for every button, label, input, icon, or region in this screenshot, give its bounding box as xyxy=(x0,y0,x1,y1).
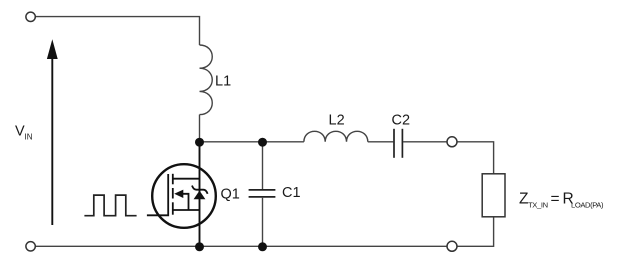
svg-text:Q1: Q1 xyxy=(221,187,240,203)
svg-text:L1: L1 xyxy=(215,73,231,89)
svg-text:IN: IN xyxy=(25,133,33,142)
svg-text:V: V xyxy=(15,124,25,140)
svg-text:C2: C2 xyxy=(392,112,411,128)
svg-text:TX_IN: TX_IN xyxy=(528,201,548,210)
svg-text:LOAD(PA): LOAD(PA) xyxy=(571,201,604,210)
svg-text:=: = xyxy=(551,191,560,208)
svg-text:L2: L2 xyxy=(329,112,345,128)
svg-text:C1: C1 xyxy=(282,185,301,201)
